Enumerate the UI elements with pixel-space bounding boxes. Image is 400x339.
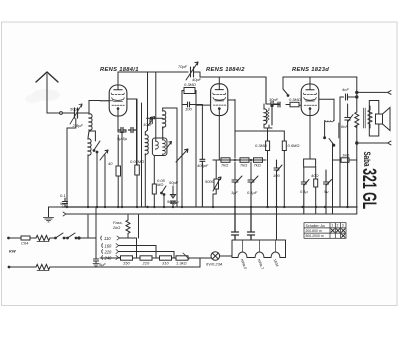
svg-text:1kΩ: 1kΩ — [342, 153, 349, 158]
svg-text:110: 110 — [104, 236, 111, 241]
svg-text:C64: C64 — [21, 241, 29, 246]
svg-text:220: 220 — [104, 250, 113, 255]
svg-text:5μ 5μ: 5μ 5μ — [117, 136, 128, 141]
svg-text:40: 40 — [108, 161, 113, 166]
svg-text:0.3MΩ: 0.3MΩ — [184, 82, 196, 87]
svg-text:400pF: 400pF — [197, 163, 209, 168]
svg-text:200-600 m: 200-600 m — [306, 229, 322, 233]
svg-text:RENS 1884i2: RENS 1884i2 — [206, 67, 245, 73]
svg-text:8nF: 8nF — [341, 124, 348, 129]
svg-text:800-2000 m: 800-2000 m — [306, 234, 324, 238]
svg-text:150: 150 — [123, 261, 130, 266]
svg-text:10pF: 10pF — [143, 122, 153, 127]
svg-text:1.3kΩ: 1.3kΩ — [176, 261, 187, 266]
svg-text:100: 100 — [185, 107, 192, 112]
svg-text:0.3MΩ: 0.3MΩ — [255, 143, 267, 148]
svg-text:MΩ: MΩ — [157, 182, 163, 187]
svg-text:50pF: 50pF — [169, 180, 179, 185]
svg-text:0.5MΩ: 0.5MΩ — [289, 97, 301, 102]
svg-text:310: 310 — [162, 261, 169, 266]
svg-text:40Ω: 40Ω — [311, 173, 319, 178]
svg-text:0.1μ: 0.1μ — [300, 189, 309, 194]
svg-text:0.05MΩ: 0.05MΩ — [130, 159, 144, 164]
svg-text:30pF: 30pF — [269, 97, 279, 102]
svg-text:210: 210 — [142, 261, 150, 266]
svg-text:RENS 1823d: RENS 1823d — [292, 67, 329, 73]
svg-text:2kΩ: 2kΩ — [112, 225, 120, 230]
svg-text:1: 1 — [331, 224, 333, 228]
svg-text:100: 100 — [273, 173, 280, 178]
svg-text:0.1μF: 0.1μF — [247, 190, 258, 195]
svg-text:7kΩ: 7kΩ — [221, 163, 228, 168]
svg-text:7kΩ: 7kΩ — [254, 163, 261, 168]
svg-text:6V/0.23A: 6V/0.23A — [206, 262, 223, 267]
svg-text:4nF: 4nF — [342, 87, 349, 92]
svg-text:1μF: 1μF — [231, 190, 238, 195]
svg-text:7kΩ: 7kΩ — [240, 163, 247, 168]
svg-text:RENS 1884/1: RENS 1884/1 — [100, 67, 139, 73]
svg-text:70pF: 70pF — [178, 64, 188, 69]
svg-text:0.6MΩ: 0.6MΩ — [288, 143, 300, 148]
svg-text:3: 3 — [342, 224, 344, 228]
svg-text:0.1: 0.1 — [60, 193, 66, 198]
svg-text:5μF: 5μF — [99, 262, 106, 267]
svg-text:Schalter: An: Schalter: An — [306, 224, 325, 228]
svg-text:Saba: Saba — [361, 152, 372, 167]
svg-text:2: 2 — [337, 224, 339, 228]
svg-text:50pF: 50pF — [167, 199, 177, 204]
svg-text:321 GL: 321 GL — [358, 168, 379, 209]
svg-text:240: 240 — [104, 256, 113, 261]
svg-text:160: 160 — [105, 244, 113, 249]
svg-text:5000: 5000 — [205, 179, 215, 184]
svg-text:50pF: 50pF — [70, 107, 80, 112]
svg-text:2-8pF: 2-8pF — [72, 123, 84, 128]
